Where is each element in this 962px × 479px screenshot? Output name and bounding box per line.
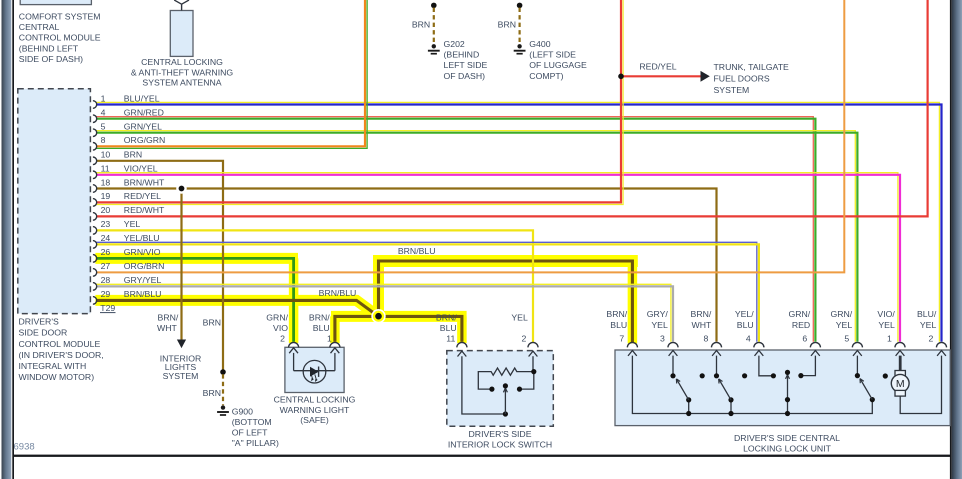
lock motor M — [899, 356, 902, 371]
svg-text:RED/YEL: RED/YEL — [124, 191, 161, 201]
svg-text:RED: RED — [792, 320, 810, 330]
highlight band GRN/VIO — [95, 253, 298, 264]
svg-text:G202: G202 — [444, 39, 465, 49]
switch pin 2 connector — [528, 342, 538, 347]
svg-text:"A" PILLAR): "A" PILLAR) — [232, 438, 279, 448]
lock unit pin 8 connector — [712, 342, 722, 347]
resistor in lock switch — [478, 368, 534, 389]
svg-text:YEL/BLU: YEL/BLU — [124, 233, 160, 243]
svg-text:3: 3 — [660, 333, 665, 343]
wire YEL/BLU pin24 to lock pin4 — [96, 242, 757, 341]
svg-text:(BOTTOM: (BOTTOM — [232, 417, 272, 427]
lock switch contact pin8 — [716, 356, 718, 376]
wire YEL pin23 to switch pin2 — [96, 230, 533, 342]
page border right — [950, 0, 952, 479]
svg-text:BRN/: BRN/ — [436, 312, 457, 322]
svg-text:BRN/WHT: BRN/WHT — [124, 177, 165, 187]
antenna symbol — [181, 4, 183, 10]
svg-text:(LEFT SIDE: (LEFT SIDE — [529, 49, 576, 59]
svg-text:YEL: YEL — [920, 320, 937, 330]
driver side central locking lock unit — [615, 350, 950, 426]
svg-text:VIO/: VIO/ — [877, 309, 895, 319]
svg-text:5: 5 — [844, 333, 849, 343]
svg-text:GRN/: GRN/ — [830, 309, 852, 319]
svg-text:CONTROL MODULE: CONTROL MODULE — [19, 339, 101, 349]
svg-text:5: 5 — [101, 122, 106, 132]
svg-text:2: 2 — [521, 333, 526, 343]
svg-text:WHT: WHT — [692, 320, 712, 330]
svg-text:BLU: BLU — [440, 323, 457, 333]
highlight band BRN/BLU — [95, 300, 378, 316]
central locking warning light (SAFE) — [285, 347, 344, 392]
module pin 11 connector — [93, 171, 97, 179]
switch pole arm — [504, 388, 506, 414]
svg-text:ORG/GRN: ORG/GRN — [124, 135, 166, 145]
svg-text:BRN: BRN — [203, 388, 221, 398]
svg-text:28: 28 — [101, 275, 111, 285]
svg-text:BLU: BLU — [737, 320, 754, 330]
svg-text:YEL: YEL — [511, 312, 528, 322]
lock switch arm 3 — [870, 397, 875, 402]
svg-text:SYSTEM ANTENNA: SYSTEM ANTENNA — [142, 78, 221, 88]
svg-text:BLU: BLU — [313, 323, 330, 333]
warning light pin 1 connector — [330, 342, 340, 347]
svg-text:OF LEFT: OF LEFT — [232, 428, 268, 438]
lock switch arm 2 — [730, 400, 732, 414]
driver side interior lock switch (dashed box) — [447, 351, 554, 427]
svg-text:23: 23 — [101, 219, 111, 229]
svg-text:DRIVER'S SIDE CENTRAL: DRIVER'S SIDE CENTRAL — [734, 433, 840, 443]
svg-text:M: M — [896, 378, 905, 390]
wire GRN/YEL pin5 to lock pin5 — [96, 131, 855, 342]
svg-text:CENTRAL: CENTRAL — [19, 22, 60, 32]
module pin 19 connector — [93, 199, 97, 207]
svg-text:CONTROL MODULE: CONTROL MODULE — [19, 33, 101, 43]
comfort system central control module U1 (cut off at top) — [20, 0, 91, 5]
svg-text:19: 19 — [101, 191, 111, 201]
svg-text:4: 4 — [746, 333, 751, 343]
svg-text:6: 6 — [802, 333, 807, 343]
wire RED/YEL branch to trunk system — [621, 75, 702, 77]
svg-text:ORG/BRN: ORG/BRN — [124, 261, 165, 271]
lock unit pin 5 connector — [852, 342, 862, 347]
wire RED/YEL pin19 up to top — [96, 0, 623, 205]
svg-text:BRN: BRN — [203, 317, 221, 327]
wire BLU/YEL pin1 to lock pin2 — [96, 102, 939, 341]
svg-text:WHT: WHT — [157, 323, 177, 333]
junction BRN — [220, 369, 226, 375]
switch pin 11 connector — [457, 342, 467, 347]
svg-text:INTERIOR LOCK SWITCH: INTERIOR LOCK SWITCH — [448, 440, 552, 450]
svg-text:(IN DRIVER'S DOOR,: (IN DRIVER'S DOOR, — [19, 350, 104, 360]
svg-text:GRN/RED: GRN/RED — [124, 108, 164, 118]
module pin 5 connector — [93, 129, 97, 137]
svg-text:2: 2 — [928, 333, 933, 343]
wire BRN/WHT pin18 to lock pin8 — [96, 189, 716, 342]
wire GRN/VIO core — [96, 258, 293, 341]
svg-text:VIO: VIO — [273, 323, 288, 333]
lock switch centre pole — [787, 375, 789, 414]
svg-text:INTEGRAL WITH: INTEGRAL WITH — [19, 361, 87, 371]
svg-text:18: 18 — [101, 177, 111, 187]
svg-text:CENTRAL LOCKING: CENTRAL LOCKING — [274, 395, 356, 405]
svg-text:BLU/: BLU/ — [917, 309, 937, 319]
wire GRN/RED pin4 to lock pin6 — [96, 117, 813, 342]
module pin 29 connector — [93, 297, 97, 305]
svg-text:GRY/YEL: GRY/YEL — [124, 275, 162, 285]
driver side door control module (dashed box) — [18, 89, 91, 314]
svg-text:27: 27 — [101, 261, 111, 271]
svg-text:(SAFE): (SAFE) — [300, 415, 329, 425]
module pin 8 connector — [93, 143, 97, 151]
svg-text:7: 7 — [619, 333, 624, 343]
svg-text:11: 11 — [446, 333, 455, 343]
module pin 4 connector — [93, 115, 97, 123]
arrow to trunk tailgate fuel doors system — [701, 71, 710, 82]
svg-text:CENTRAL LOCKING: CENTRAL LOCKING — [141, 57, 223, 67]
svg-text:DRIVER'S SIDE: DRIVER'S SIDE — [469, 429, 532, 439]
svg-text:FUEL DOORS: FUEL DOORS — [714, 74, 770, 84]
page border bottom — [13, 455, 950, 457]
ground G202 stub dot — [431, 3, 437, 9]
svg-text:BRN/BLU: BRN/BLU — [124, 289, 162, 299]
svg-text:GRN/: GRN/ — [266, 312, 288, 322]
svg-text:BLU: BLU — [610, 320, 627, 330]
svg-text:VIO/YEL: VIO/YEL — [124, 164, 158, 174]
lock unit internal bus — [632, 356, 872, 414]
svg-text:LEFT SIDE: LEFT SIDE — [444, 60, 488, 70]
wire GRY/YEL pin28 to lock pin3 — [96, 284, 671, 342]
svg-text:SYSTEM: SYSTEM — [714, 85, 750, 95]
warning light pin 2 connector — [289, 342, 299, 347]
svg-text:LOCKING LOCK UNIT: LOCKING LOCK UNIT — [743, 444, 832, 454]
svg-text:6938: 6938 — [14, 441, 35, 452]
svg-text:10: 10 — [101, 150, 111, 160]
ground G900 — [221, 405, 225, 409]
svg-text:26: 26 — [101, 247, 111, 257]
lock unit pin 1 connector — [895, 342, 905, 347]
module pin 20 connector — [93, 213, 97, 221]
svg-text:YEL: YEL — [651, 320, 668, 330]
svg-text:YEL: YEL — [836, 320, 853, 330]
svg-text:(BEHIND LEFT: (BEHIND LEFT — [19, 43, 79, 53]
svg-text:2: 2 — [280, 333, 285, 343]
svg-text:WARNING LIGHT: WARNING LIGHT — [280, 405, 350, 415]
module pin 10 connector — [93, 157, 97, 165]
switch contacts — [531, 369, 536, 374]
svg-text:YEL: YEL — [124, 219, 141, 229]
svg-text:BRN/BLU: BRN/BLU — [398, 246, 436, 256]
svg-text:24: 24 — [101, 233, 111, 243]
svg-text:COMFORT SYSTEM: COMFORT SYSTEM — [19, 12, 101, 22]
svg-text:RED/WHT: RED/WHT — [124, 205, 165, 215]
svg-text:1: 1 — [101, 93, 106, 103]
svg-text:20: 20 — [101, 205, 111, 215]
svg-text:OF DASH): OF DASH) — [444, 71, 486, 81]
right scrollbar bar — [952, 0, 962, 479]
svg-text:BRN/: BRN/ — [691, 309, 712, 319]
svg-text:BRN/: BRN/ — [309, 312, 330, 322]
lock unit pin 7 connector — [627, 342, 637, 347]
lock unit pin 6 connector — [810, 342, 820, 347]
svg-text:4: 4 — [101, 108, 106, 118]
svg-text:& ANTI-THEFT WARNING: & ANTI-THEFT WARNING — [131, 67, 234, 77]
module pin 24 connector — [93, 241, 97, 249]
svg-text:YEL: YEL — [878, 320, 895, 330]
module pin 27 connector — [93, 269, 97, 277]
svg-text:1: 1 — [887, 333, 892, 343]
svg-text:BLU/YEL: BLU/YEL — [124, 93, 160, 103]
svg-text:SIDE OF DASH): SIDE OF DASH) — [19, 54, 83, 64]
lock switch arm 1 — [688, 400, 690, 414]
module pin 28 connector — [93, 283, 97, 291]
lock switch contact pin3 — [672, 356, 674, 376]
module pin 23 connector — [93, 227, 97, 235]
LED lamp symbol — [294, 370, 335, 372]
motor to pin2 wiring — [900, 356, 941, 414]
wire ORG/BRN pin27 up to top — [96, 0, 844, 272]
wire RED/WHT pin20 up to top — [96, 0, 927, 216]
svg-text:8: 8 — [101, 135, 106, 145]
svg-text:GRN/: GRN/ — [788, 309, 810, 319]
lock unit pin 4 connector — [754, 342, 764, 347]
svg-text:OF LUGGAGE: OF LUGGAGE — [529, 60, 587, 70]
svg-text:8: 8 — [703, 333, 708, 343]
svg-text:BRN: BRN — [124, 150, 142, 160]
svg-text:SIDE DOOR: SIDE DOOR — [19, 328, 68, 338]
svg-text:TRUNK, TAILGATE: TRUNK, TAILGATE — [714, 62, 790, 72]
svg-text:(BEHIND: (BEHIND — [444, 49, 480, 59]
svg-text:BRN/BLU: BRN/BLU — [319, 288, 357, 298]
svg-text:BRN/: BRN/ — [158, 312, 179, 322]
svg-text:RED/YEL: RED/YEL — [639, 62, 676, 72]
junction BRN/BLU — [371, 309, 385, 323]
lock unit pin 2 connector — [937, 342, 947, 347]
arrow to interior lights system — [177, 340, 186, 349]
module pin 1 connector — [93, 101, 97, 109]
svg-text:1: 1 — [327, 333, 332, 343]
ground G400 stub dot — [517, 3, 523, 9]
svg-text:29: 29 — [101, 289, 111, 299]
wire BRN dashed to G900 — [222, 374, 224, 405]
wire VIO/YEL pin11 to lock pin1 — [96, 173, 898, 342]
svg-text:GRN/YEL: GRN/YEL — [124, 122, 162, 132]
lock unit pin 3 connector — [668, 342, 678, 347]
svg-text:GRN/VIO: GRN/VIO — [124, 247, 161, 257]
page border left — [12, 0, 14, 479]
svg-text:SYSTEM: SYSTEM — [163, 371, 199, 381]
svg-text:G900: G900 — [232, 406, 253, 416]
junction BRN/WHT — [176, 183, 187, 194]
wire ORG/GRN pin8 up to top — [96, 0, 367, 148]
svg-text:BRN: BRN — [412, 19, 430, 29]
wire BRN pin10 down — [96, 161, 223, 372]
module pin 26 connector — [93, 255, 97, 263]
svg-text:YEL/: YEL/ — [735, 309, 754, 319]
svg-text:DRIVER'S: DRIVER'S — [19, 317, 59, 327]
svg-text:COMPT): COMPT) — [529, 71, 563, 81]
svg-text:WINDOW MOTOR): WINDOW MOTOR) — [19, 372, 95, 382]
svg-text:BRN/: BRN/ — [606, 309, 627, 319]
central locking anti-theft antenna — [170, 11, 193, 57]
junction RED/YEL — [618, 74, 624, 80]
lock switch contact pin4 — [759, 356, 774, 376]
svg-text:T29: T29 — [100, 303, 115, 313]
module pin 18 connector — [93, 185, 97, 193]
ground G400 — [518, 8, 520, 45]
lock switch contact pin5 — [856, 356, 858, 376]
ground G202 — [433, 8, 435, 45]
svg-text:GRY/: GRY/ — [647, 309, 669, 319]
lock switch contact pin6 — [801, 356, 816, 376]
wire BRN/WHT branch vertical to interior lights — [180, 189, 182, 340]
svg-text:G400: G400 — [529, 39, 550, 49]
svg-text:11: 11 — [101, 164, 110, 174]
svg-text:BRN: BRN — [498, 19, 516, 29]
wire BRN/BLU core pin29 — [96, 300, 373, 313]
